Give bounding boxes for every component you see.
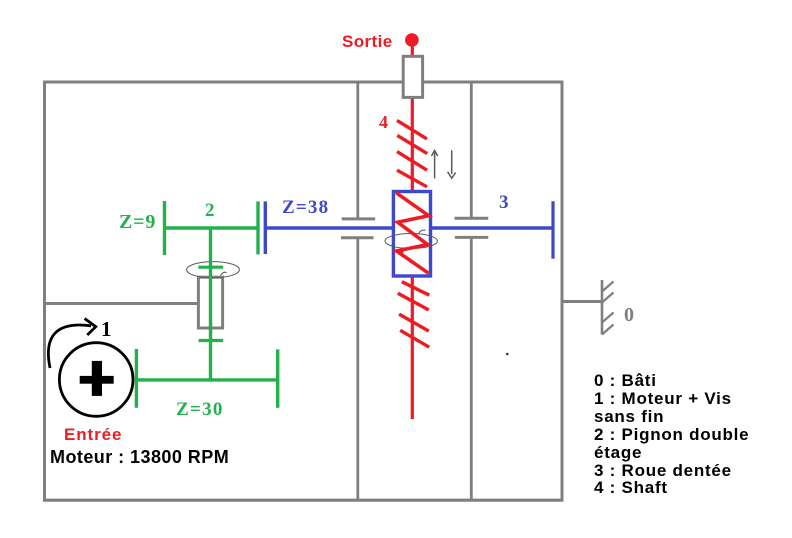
shaft 4 thread hatch upper 3 (397, 152, 427, 171)
label 3 (499, 192, 509, 214)
rotation ellipse on worm shaft (385, 234, 437, 249)
motor rotation arrowhead (85, 319, 96, 336)
pinion ellipse arrow hook (221, 272, 227, 275)
label Z=38 (282, 197, 329, 219)
pinion shaft tick upper (198, 266, 223, 269)
label Z=9 (119, 211, 156, 234)
gear wheel 3 hub tick left (264, 201, 267, 254)
label 1 (101, 317, 112, 342)
stray dot (506, 353, 509, 356)
ground hatch 2 (602, 293, 614, 303)
shaft 4 thread hatch upper 4 (397, 170, 427, 187)
gear wheel 3 hub tick right (551, 201, 554, 259)
shaft of wheel 3 blue horizontal (265, 226, 553, 229)
down arrow near shaft 4 (451, 150, 453, 174)
frame inner wall left upper (356, 82, 359, 218)
legend text (594, 372, 749, 497)
frame left wall (43, 81, 46, 502)
ground hatch 4 (602, 325, 614, 335)
worm wheel box (393, 192, 430, 277)
frame inner wall right lower (470, 239, 473, 500)
rotation ellipse on pinion shaft (187, 262, 240, 278)
output bearing block (403, 56, 422, 97)
pinion 2 upper gear tick right (256, 201, 259, 254)
bearing bar right-wall top (455, 217, 489, 220)
shaft 4 thread hatch lower 4 (400, 330, 429, 347)
gear Z30 tick left (135, 349, 138, 408)
shaft 4 thread hatch lower 2 (398, 293, 429, 310)
label Z=30 (176, 399, 224, 421)
ground symbol vertical (601, 280, 604, 335)
shaft 4 thread hatch lower 1 (402, 282, 430, 296)
worm zigzag arrowhead (396, 247, 404, 254)
gear Z30 line (136, 378, 277, 381)
worm thread zigzag (396, 193, 429, 273)
ground link arm (562, 300, 602, 303)
frame top wall (43, 81, 564, 84)
frame right wall (561, 81, 564, 502)
motor circle (59, 343, 133, 417)
shaft 4 thread hatch upper 1 (397, 120, 427, 138)
pinion shaft tick lower (199, 339, 224, 342)
frame inner wall right upper (470, 82, 473, 217)
ground hatch 1 (602, 282, 614, 292)
shaft 4 red vertical line (411, 46, 414, 419)
up arrow near shaft 4 (434, 151, 436, 179)
shaft 4 thread hatch upper 2 (397, 135, 427, 153)
bearing bar left-wall top (342, 217, 376, 220)
label 0 (624, 304, 634, 327)
frame link to motor bearing (44, 302, 199, 305)
label Entree (64, 425, 122, 445)
pinion 2 upper gear line (163, 226, 258, 229)
motor rotation arc (48, 325, 91, 368)
ground hatch 3 (602, 313, 614, 323)
motor plus horizontal bar (80, 376, 114, 384)
shaft 4 thread hatch lower 3 (399, 314, 429, 331)
pinion 2 vertical shaft (209, 228, 212, 380)
frame inner wall left lower (356, 239, 359, 500)
label Sortie (342, 32, 393, 52)
frame bottom wall (43, 499, 564, 502)
motor shaft bearing block (198, 277, 222, 328)
label Moteur RPM (50, 447, 229, 468)
bearing bar right-wall bottom (455, 236, 488, 239)
gear Z30 tick right (276, 349, 279, 407)
output pin red dot (405, 33, 419, 47)
motor plus vertical bar (92, 361, 102, 396)
pinion 2 upper gear tick left (163, 201, 166, 255)
label 2 (205, 200, 215, 222)
bearing bar left-wall bottom (341, 236, 374, 239)
rotation ellipse arrow hook (419, 230, 426, 234)
label 4 (379, 112, 388, 133)
